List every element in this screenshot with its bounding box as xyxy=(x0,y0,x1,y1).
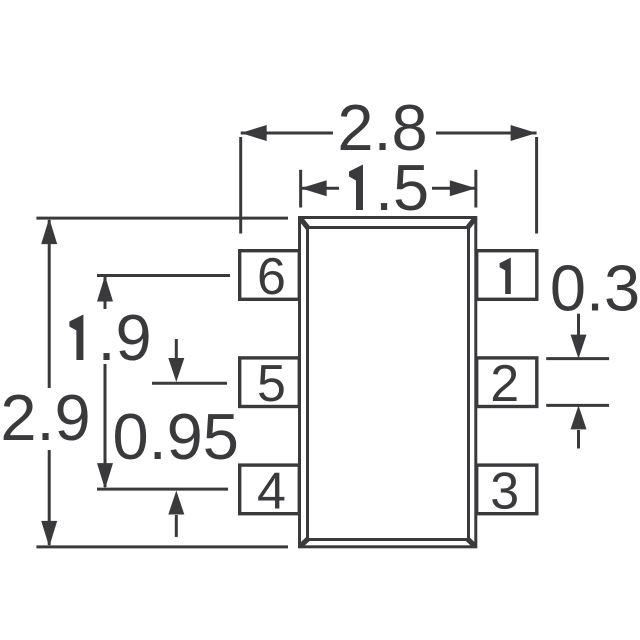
svg-text:3: 3 xyxy=(490,462,519,520)
svg-text:0.95: 0.95 xyxy=(112,400,239,473)
svg-text:6: 6 xyxy=(257,248,286,306)
svg-text:.9: .9 xyxy=(98,301,152,374)
svg-text:2.9: 2.9 xyxy=(0,381,90,454)
svg-text:.5: .5 xyxy=(375,151,429,224)
svg-text:2: 2 xyxy=(490,355,519,413)
svg-text:0.3: 0.3 xyxy=(550,252,640,325)
svg-text:4: 4 xyxy=(257,462,286,520)
svg-text:5: 5 xyxy=(257,355,286,413)
